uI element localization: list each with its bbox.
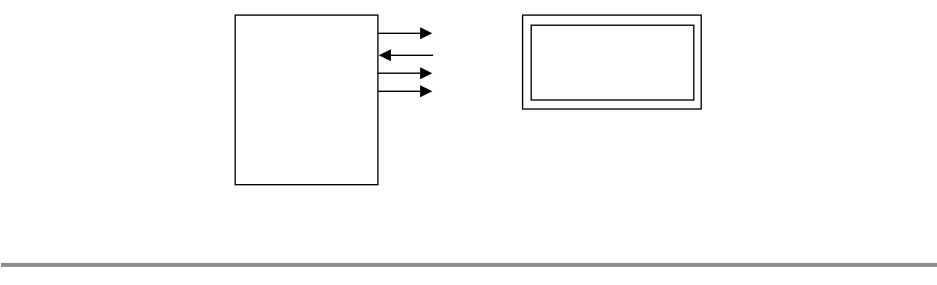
arrow 3: output arrow (points right): [378, 67, 432, 79]
arrow 4: output arrow (points right): [378, 85, 432, 97]
divider: bottom gray bar: [1, 263, 937, 267]
block: right display inner frame: [531, 25, 694, 100]
arrow 1: output arrow (points right): [378, 27, 432, 39]
arrow 2: input arrow (points left into box): [379, 49, 434, 61]
block: left process box: [235, 15, 378, 185]
block: right display outer frame: [523, 15, 702, 109]
